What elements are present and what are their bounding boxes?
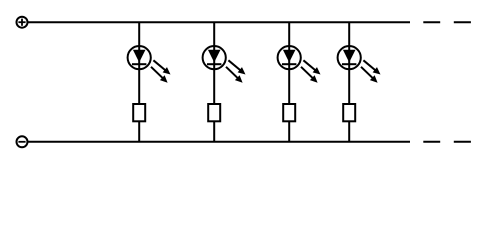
wire: top positive rail: [28, 21, 410, 23]
resistor R3: [283, 104, 295, 121]
wire: branch 1 vertical: [138, 22, 140, 142]
wire: branch 3 vertical: [288, 22, 290, 142]
LED D1: [128, 46, 171, 83]
wire: bottom rail continuation dashes: [423, 141, 471, 143]
wire: branch 2 vertical: [213, 22, 215, 142]
wire: top rail continuation dashes: [423, 21, 471, 23]
positive supply terminal (+): [17, 17, 28, 28]
LED D4: [338, 46, 381, 83]
LED D3: [278, 46, 321, 83]
resistor R1: [133, 104, 145, 121]
resistor R2: [208, 104, 220, 121]
wire: bottom negative rail: [28, 141, 410, 143]
negative supply terminal (-): [17, 136, 28, 147]
resistor R4: [343, 104, 355, 121]
LED D2: [203, 46, 246, 83]
wire: branch 4 vertical: [348, 22, 350, 142]
